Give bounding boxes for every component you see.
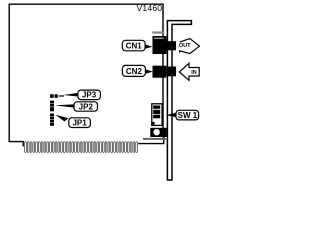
switch SW1 [152,104,162,126]
bracket [167,21,191,180]
svg-text:CN1: CN1 [126,42,143,51]
svg-text:JP1: JP1 [72,118,87,127]
svg-text:IN: IN [191,70,197,76]
jumper JP2 (vertical header) [50,101,54,112]
label SW1 [166,110,199,120]
svg-text:CN2: CN2 [126,67,143,76]
svg-text:V1460: V1460 [136,3,162,13]
connector CN1 [153,36,167,54]
card outline [9,4,164,146]
label JP1 [55,115,90,128]
label CN2 [122,65,152,76]
svg-text:JP3: JP3 [82,91,97,100]
jumper JP3 (horizontal header) [50,94,64,98]
connector CN2 [153,66,167,78]
OUT arrow [179,39,200,54]
svg-text:SW 1: SW 1 [178,111,198,120]
svg-text:OUT: OUT [179,43,191,49]
label JP3 [63,90,100,100]
label JP2 [55,102,98,112]
round connector [143,128,167,140]
svg-text:JP2: JP2 [79,102,94,111]
edge connector comb [25,142,138,153]
label CN1 [122,40,152,51]
jumper JP1 (vertical header) [50,114,54,126]
IN arrow [179,63,199,80]
connector CN1 top detail [152,31,164,33]
